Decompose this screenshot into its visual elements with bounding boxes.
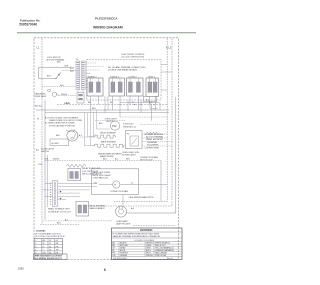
svg-text:BAKE ELEMENT: BAKE ELEMENT (90, 207, 106, 210)
svg-text:BLK: BLK (57, 223, 61, 225)
svg-text:N L2: N L2 (166, 46, 172, 50)
svg-text:P3: P3 (127, 134, 130, 136)
svg-text:A-1: A-1 (115, 158, 119, 161)
svg-text:BROIL ELEMENT: BROIL ELEMENT (100, 132, 117, 134)
svg-text:A-1: A-1 (36, 149, 40, 152)
svg-text:Y: Y (42, 249, 44, 251)
svg-text:CONVECTION FAN: CONVECTION FAN (140, 156, 158, 159)
svg-text:W: W (37, 119, 39, 121)
broil element R1 square-wave (94, 135, 117, 138)
svg-text:PANEL MOUNTED: PANEL MOUNTED (146, 138, 164, 141)
wire inner vertical x47 (46, 155, 48, 207)
lock switch contact a (55, 78, 56, 79)
wire switch to connector (61, 71, 63, 73)
lock switch S1 (56, 73, 61, 79)
wire terminal block to N (142, 133, 167, 135)
wire strip tails down (77, 90, 79, 93)
svg-text:PR: PR (56, 246, 59, 248)
svg-text:DOOR LATCHED POSITION: DOOR LATCHED POSITION (49, 124, 75, 127)
svg-text:SMALL SURFACE UNIT: SMALL SURFACE UNIT (48, 208, 70, 211)
wire short vertical 151 (151, 105, 153, 121)
terminal arrow 2 (71, 70, 75, 72)
svg-text:MOTOR TERMINAL: MOTOR TERMINAL (47, 59, 66, 62)
svg-text:A-3: A-3 (131, 207, 135, 210)
diagram border frame (34, 38, 178, 260)
wire fan to L2 (120, 184, 167, 186)
svg-text:PINK ROSA: PINK ROSA (155, 254, 167, 257)
svg-text:3: 3 (35, 246, 37, 248)
electronic oven control label (122, 54, 146, 59)
svg-text:5995379046: 5995379046 (19, 23, 37, 27)
svg-text:CONVECTION FAN: CONVECTION FAN (110, 190, 128, 193)
svg-text:(CLOCK CONTROLLED): (CLOCK CONTROLLED) (122, 57, 145, 59)
svg-text:MOLDED TERMINAL: MOLDED TERMINAL (145, 133, 165, 136)
terminal arrows to strip (71, 67, 75, 69)
svg-text:P10: P10 (112, 125, 117, 128)
relay K2 BROIL (109, 76, 125, 96)
connector shell P2 bottom (77, 93, 84, 104)
table column rules (118, 242, 120, 257)
connector P4 strip (50, 181, 62, 206)
svg-text:BR: BR (56, 243, 59, 245)
terminal box A-1 (144, 96, 157, 101)
molded terminal block label (145, 133, 165, 150)
svg-text:P1: P1 (76, 59, 79, 61)
svg-text:A-1: A-1 (79, 134, 83, 137)
svg-text:WARNING: WARNING (140, 228, 153, 232)
svg-text:14: 14 (49, 246, 52, 248)
svg-text:SWITCH: SWITCH (41, 151, 49, 153)
svg-text:NO. 510 AND TERMINAL CONNECTOR: NO. 510 AND TERMINAL CONNECTORS (108, 66, 146, 69)
wire N vertical supply (113, 39, 167, 202)
svg-text:GN: GN (112, 255, 116, 257)
svg-text:GREEN: GREEN (120, 255, 128, 257)
wire TOD run dashed (45, 160, 161, 162)
svg-text:(BAKE 2600W): (BAKE 2600W) (100, 155, 114, 158)
svg-text:LAMP HOLDER: LAMP HOLDER (116, 223, 131, 226)
svg-text:BLK: BLK (57, 62, 61, 64)
svg-text:WIRING DIAGRAM: WIRING DIAGRAM (93, 26, 123, 30)
TOD switch S4 box (68, 169, 81, 181)
TOD labels with arrows (38, 159, 60, 166)
svg-text:BLK: BLK (65, 66, 69, 68)
svg-text:DATA SENS: DATA SENS (35, 93, 47, 96)
svg-text:1: 1 (35, 240, 37, 242)
surface switch S6 box (76, 202, 89, 217)
relay pin wires down from board (91, 96, 156, 117)
svg-text:DOUBLE LINE BREAK RELAYS: DOUBLE LINE BREAK RELAYS (108, 68, 138, 71)
svg-text:BLK: BLK (47, 76, 51, 78)
oven light DS1 (99, 118, 120, 130)
svg-text:BROIL ELEMENT: BROIL ELEMENT (90, 205, 107, 207)
svg-text:GY: GY (56, 240, 60, 242)
wire L2 vertical supply (82, 39, 172, 207)
svg-text:BROIL 240V 3400W: BROIL 240V 3400W (93, 175, 111, 177)
svg-text:W: W (42, 243, 44, 245)
svg-text:L1: L1 (37, 46, 40, 50)
legend block (35, 230, 65, 238)
svg-text:R: R (42, 246, 44, 248)
lock switch arrow (58, 74, 61, 76)
wire terminal block mid 1 (142, 137, 167, 139)
bake element R2 square-wave (94, 144, 125, 147)
svg-text:DOOR LATCH: DOOR LATCH (41, 147, 55, 150)
wire board to N (161, 71, 172, 73)
wire relay output bus (120, 103, 160, 110)
MDL gearbox box (50, 139, 69, 146)
relay K4 MDL (146, 76, 159, 96)
wire board pins to P2 (87, 63, 105, 88)
wire labeled W-BLK run (57, 104, 167, 106)
wire right corner vertical 1 (160, 161, 162, 202)
svg-text:BAKE ELEMENT: BAKE ELEMENT (101, 141, 117, 144)
svg-text:P/N 316234200: P/N 316234200 (113, 258, 128, 260)
connector P1 strip (76, 61, 80, 90)
svg-text:A. DOOR LOCKED LIGHT FLASHES: A. DOOR LOCKED LIGHT FLASHES (45, 116, 79, 119)
svg-text:OVEN TEMP: OVEN TEMP (35, 96, 47, 98)
svg-text:VERDE: VERDE (146, 255, 154, 257)
conv fan label (140, 156, 158, 162)
svg-text:TN: TN (56, 249, 59, 251)
header rule (17, 32, 196, 34)
element R3 zigzag above TOD boxes (66, 164, 86, 167)
connector P2 strip (81, 61, 85, 90)
svg-text:LEGEND:: LEGEND: (36, 230, 46, 232)
oven light switch S3 box (123, 124, 142, 149)
svg-text:2: 2 (35, 243, 37, 245)
svg-text:LOCK MOTOR: LOCK MOTOR (47, 57, 61, 59)
connector shell pins (78, 94, 82, 96)
svg-text:1090: 1090 (18, 267, 25, 271)
svg-text:WIRE DIAGRAM COLOR KEY: WIRE DIAGRAM COLOR KEY (34, 254, 62, 257)
wire bottom bus 2 (40, 223, 80, 225)
small surface unit label (48, 208, 71, 214)
oven door switch S2 (35, 92, 60, 98)
wire dashed y120.5 (95, 120, 126, 122)
svg-text:MDL: MDL (56, 135, 61, 137)
svg-text:M: M (115, 185, 117, 187)
oven sensor zigzag (146, 132, 158, 135)
svg-text:ALL WIRING SHOWN OFF P.1: ALL WIRING SHOWN OFF P.1 (34, 257, 63, 260)
wire lock loop bottom (39, 78, 57, 80)
lock motor label (47, 57, 66, 64)
svg-text:TOD: TOD (38, 164, 43, 166)
wire terminal block to L2 (142, 145, 172, 147)
svg-text:6: 6 (104, 267, 107, 272)
wire board to N upper (161, 64, 167, 66)
table row rules (112, 243, 183, 245)
svg-text:W-SCREWS: W-SCREWS (147, 145, 159, 147)
wire main horizontal bus (36, 109, 169, 111)
oven lamp DS2 (116, 206, 131, 226)
svg-text:P-3 BLK-64: P-3 BLK-64 (123, 124, 134, 126)
warning table (112, 228, 183, 260)
svg-text:B. OPEN DURING SELF CLEAN: B. OPEN DURING SELF CLEAN (45, 122, 75, 125)
svg-text:BLK A-2: BLK A-2 (35, 105, 43, 108)
svg-text:SOCKET ASSY: SOCKET ASSY (122, 154, 137, 157)
pin labels under board (88, 102, 153, 104)
wire L1 vertical supply (41, 39, 43, 225)
legend table (34, 239, 63, 255)
svg-text:OVEN LIGHT 40W: OVEN LIGHT 40W (122, 152, 139, 154)
svg-text:12: 12 (49, 243, 52, 245)
convection fan motor M3 (113, 181, 120, 188)
junction comb verticals (105, 96, 150, 113)
svg-text:DOUBLE AT 12 OCLOCK: DOUBLE AT 12 OCLOCK (48, 210, 71, 213)
relay K1 BAKE (87, 75, 103, 96)
terminal bullet (48, 89, 51, 92)
wire right vertical x175 (127, 97, 176, 213)
svg-text:* SEE HIDDEN BAKE NOTE: * SEE HIDDEN BAKE NOTE (128, 196, 154, 199)
svg-text:BK: BK (110, 102, 113, 104)
svg-text:BAKE 240V 2600W: BAKE 240V 2600W (93, 171, 111, 174)
wire lock bottom to strip dashed (63, 70, 76, 72)
svg-text:BK: BK (88, 102, 91, 104)
svg-text:SAME AS ORIGINAL FOR APPLIANCE: SAME AS ORIGINAL FOR APPLIANCE OPERATION (113, 235, 161, 238)
svg-text:CKT CODES ARE COIL NO.1: CKT CODES ARE COIL NO.1 (35, 233, 62, 236)
wire term box drop (150, 102, 158, 109)
wire door switch to bus (59, 95, 76, 97)
note text block (45, 116, 83, 127)
wire dashed y117 (120, 116, 167, 118)
wire into motor (99, 184, 113, 186)
relay board label (82, 167, 102, 175)
wire below lock box dashed (42, 86, 76, 88)
svg-text:4: 4 (35, 249, 37, 251)
svg-text:W-BLK: W-BLK (53, 159, 60, 161)
header publication number (19, 19, 40, 27)
wire bottom bus 1 (43, 220, 113, 222)
wire element feed verticals (85, 110, 111, 146)
convection fan box (92, 169, 139, 195)
wire dashed y124.4 (140, 123, 167, 125)
svg-text:CONV FAN 120V: CONV FAN 120V (93, 177, 109, 180)
wire fan box to lamp stem (122, 195, 124, 205)
wires from P4 right (58, 184, 97, 200)
svg-text:A-1: A-1 (94, 182, 98, 185)
wire MDL to elements (78, 136, 97, 138)
svg-text:Rev B: Rev B (167, 258, 173, 260)
wire terminal block mid 2 (142, 141, 172, 143)
wire lock loop top (39, 68, 72, 79)
EOC board U1 (87, 60, 162, 101)
fan box interior labels (93, 171, 111, 179)
svg-text:16: 16 (49, 249, 52, 251)
svg-text:WHEN INTERLOCK CIRCUIT OPEN: WHEN INTERLOCK CIRCUIT OPEN (49, 120, 83, 122)
svg-text:COPPER WIRE: COPPER WIRE (145, 147, 160, 149)
MDL motor M2 (56, 130, 78, 142)
relay K3 CONV (127, 76, 144, 96)
svg-text:BK: BK (42, 240, 45, 242)
svg-text:HIDDEN BAKE ELEMENT: HIDDEN BAKE ELEMENT (98, 152, 122, 155)
wires from P4 left to L1 (42, 184, 52, 197)
svg-text:CKT CODE COLOR KEY A-Y1 BI: CKT CODE COLOR KEY A-Y1 BI (35, 235, 65, 238)
wire L1 inner vertical (44, 100, 46, 220)
wire strip tail 2 (82, 90, 84, 93)
svg-text:BLK: BLK (99, 123, 103, 125)
junction dots (104, 104, 154, 111)
wire bottom right dashed (133, 224, 176, 226)
svg-text:BLK: BLK (92, 108, 96, 110)
svg-text:ELECTRONIC CONTROL: ELECTRONIC CONTROL (122, 54, 146, 56)
svg-text:BLK: BLK (60, 85, 64, 87)
wire board to L2 (161, 89, 167, 91)
wire labels row (103, 158, 130, 161)
svg-text:TERM BLK-12: TERM BLK-12 (123, 126, 137, 128)
svg-text:PLES37SBCCA: PLES37SBCCA (95, 17, 118, 21)
legend footer rows (34, 254, 68, 260)
svg-text:10: 10 (49, 240, 52, 242)
svg-text:OVEN LAMP: OVEN LAMP (116, 220, 128, 223)
label relay connections (108, 66, 146, 72)
svg-text:W-BLK: W-BLK (61, 94, 68, 96)
svg-text:A-1 BLK: A-1 BLK (52, 142, 60, 145)
broil element label right (90, 205, 107, 210)
wire second bus (45, 112, 169, 114)
